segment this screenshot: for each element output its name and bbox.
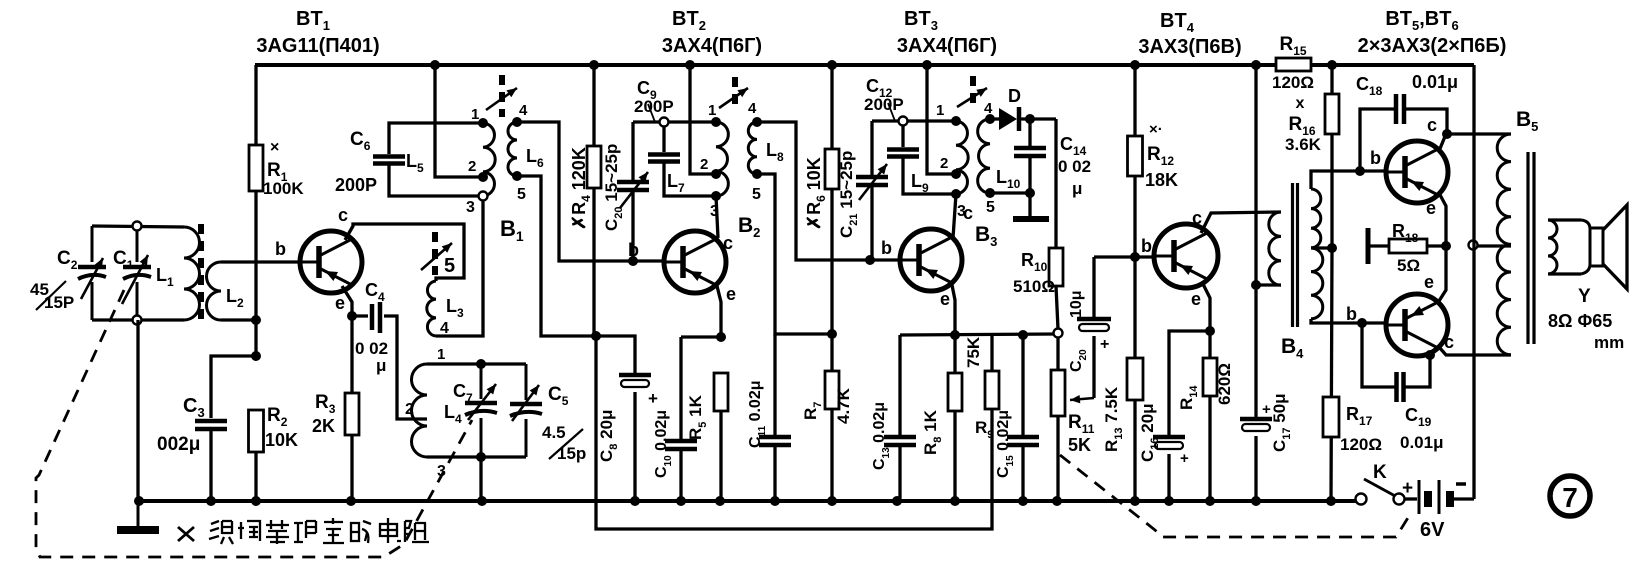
svg-text:0 02: 0 02 [1058, 157, 1091, 176]
inductor B4 secondary [1311, 189, 1323, 319]
transistor BT3 [900, 229, 962, 291]
inductor L4 [405, 364, 462, 480]
svg-text:2K: 2K [312, 416, 335, 436]
svg-text:b: b [1141, 236, 1152, 256]
trimmer C20 15-25p [602, 122, 649, 266]
resistor R10 510 [1013, 119, 1063, 329]
switch K [1356, 462, 1405, 505]
dashed gang link tuning [36, 290, 472, 557]
svg-text:K: K [1373, 462, 1387, 483]
inductor B5 primary [1497, 134, 1511, 355]
wire switch to battery [1402, 478, 1417, 499]
capacitor C6 200P [335, 123, 483, 196]
wire L2 bottom to bias node [221, 315, 261, 325]
label B3 [975, 223, 997, 249]
capacitor C12 200P [864, 76, 956, 194]
svg-text:3AX4(П6Г): 3AX4(П6Г) [897, 35, 997, 57]
svg-text:10K: 10K [265, 430, 298, 450]
label B5 [1516, 108, 1538, 134]
svg-text:3AG11(П401): 3AG11(П401) [256, 35, 379, 57]
capacitor C20b 10u electrolytic [1068, 257, 1111, 398]
inductor L6 B1 secondary [508, 102, 544, 203]
svg-text:×·: ×· [1149, 121, 1163, 138]
svg-text:e: e [1191, 289, 1201, 309]
wire BT1 emitter [342, 286, 357, 321]
svg-text:e: e [940, 289, 950, 309]
inductor L1 [156, 227, 200, 320]
transistor BT2 [664, 231, 726, 293]
svg-text:510Ω: 510Ω [1013, 277, 1055, 296]
potentiometer R11 5K [1051, 337, 1095, 506]
label speaker value [1548, 311, 1624, 352]
dashed link volume switch [1060, 455, 1411, 537]
note cross mark [178, 527, 194, 541]
svg-text:1: 1 [471, 106, 479, 123]
capacitor C4 0.02u [352, 280, 427, 419]
capacitor C2 trimmer [57, 226, 106, 320]
svg-text:120Ω: 120Ω [1272, 73, 1314, 92]
resistor R12 18K [1128, 60, 1179, 257]
label BT3 title [897, 8, 997, 57]
wire bottom ground rail [139, 499, 1356, 503]
svg-text:4: 4 [748, 100, 757, 117]
resistor R17 120 [1323, 248, 1382, 506]
wire L6 pin5 to R4 node [517, 176, 596, 336]
wire osc tank bottom [427, 452, 526, 506]
label BT5 b [1370, 148, 1381, 168]
resistor R15 120 [1272, 34, 1314, 92]
svg-text:e: e [1426, 198, 1436, 218]
svg-text:Y: Y [1578, 286, 1591, 307]
capacitor C1 main tuning [113, 222, 151, 325]
label BT6 b [1346, 304, 1357, 324]
wire BT4 collector to B4 [1201, 212, 1281, 233]
capacitor C16 20u electrolytic [1138, 331, 1210, 506]
svg-text:8Ω Φ65: 8Ω Φ65 [1548, 311, 1612, 331]
inductor L3 [427, 281, 464, 337]
capacitor C11 0.02u [747, 334, 791, 506]
B2 tuning core [719, 77, 748, 108]
label BT4 b [1141, 236, 1152, 256]
label L5 [406, 151, 424, 175]
label BT5 BT6 title [1358, 8, 1507, 57]
svg-text:7: 7 [1562, 482, 1578, 513]
svg-text:+: + [1402, 478, 1413, 499]
svg-text:2: 2 [940, 155, 948, 172]
svg-text:4.5: 4.5 [542, 423, 566, 442]
wire rail to B2 tap [685, 60, 721, 179]
svg-text:3AX4(П6Г): 3AX4(П6Г) [662, 35, 762, 57]
battery 6V [1419, 480, 1466, 541]
svg-text:120Ω: 120Ω [1340, 435, 1382, 454]
resistor R5 1K [686, 373, 728, 506]
svg-text:e: e [726, 284, 736, 304]
label B2 [738, 214, 760, 240]
svg-text:100K: 100K [263, 179, 304, 198]
label BT3 c [963, 203, 973, 223]
wire antenna tank top [92, 226, 184, 227]
wire BT2 emitter [716, 286, 726, 342]
label BT5 c [1427, 115, 1437, 135]
svg-text:c: c [1192, 208, 1202, 228]
wire R4 node to C8 [596, 336, 635, 374]
wire B4 sec top to BT5 base [1311, 166, 1386, 189]
svg-text:5: 5 [517, 186, 526, 203]
wire B4 sec bottom to BT6 base [1311, 318, 1386, 328]
svg-text:b: b [1346, 304, 1357, 324]
wire supply to B4 and C17 [1251, 60, 1261, 418]
inductor B4 primary [1256, 212, 1281, 285]
svg-text:5Ω: 5Ω [1397, 256, 1420, 275]
resistor R14 620 [1177, 331, 1234, 506]
wire AGC loop to R9 [596, 336, 992, 529]
svg-text:b: b [628, 240, 639, 260]
capacitor C7 variable [453, 364, 497, 457]
svg-text:3.6K: 3.6K [1285, 135, 1322, 154]
wire emitter bus to volume pot [900, 329, 1063, 341]
inductor L8 B2 secondary [748, 100, 784, 203]
label BT4 c [1192, 208, 1202, 228]
transistor BT6 [1386, 294, 1448, 356]
wire L2 top to BT1 base [221, 239, 300, 262]
resistor R3 2K [312, 316, 359, 506]
capacitor C14 0.02u [1014, 119, 1091, 216]
svg-text:x: x [1296, 95, 1305, 112]
label BT2 title [662, 8, 762, 57]
svg-text:D: D [1008, 86, 1021, 106]
wire BT5 collector to B5 [1439, 134, 1511, 151]
svg-text:200P: 200P [634, 97, 674, 116]
wire L8 pin5 to divider [757, 174, 837, 339]
label BT6 e [1424, 272, 1434, 292]
label BT2 e [726, 284, 736, 304]
svg-text:4.7K: 4.7K [834, 387, 853, 424]
ferrite rod core dashed [198, 224, 204, 322]
resistor R4 120K [569, 60, 601, 336]
wire B5 center tap [1469, 241, 1512, 250]
wire rail to B3 tap [922, 60, 961, 179]
svg-text:15P: 15P [44, 293, 74, 312]
wire B4 tap to R16 [1311, 243, 1337, 253]
svg-text:18K: 18K [1145, 170, 1178, 190]
svg-text:BT5,BT6: BT5,BT6 [1385, 8, 1458, 33]
capacitor C15 0.02u [995, 335, 1039, 506]
wire BT6 collector to B5 [1425, 347, 1511, 360]
wire rail to B1 tap [430, 60, 488, 182]
svg-text:200P: 200P [864, 95, 904, 114]
resistor R13 7.5K [1102, 257, 1143, 506]
capacitor C9 200P [634, 78, 716, 196]
svg-text:c: c [1444, 332, 1454, 352]
wire bias node to C3 R2 [251, 320, 261, 361]
label speaker Y [1578, 286, 1591, 307]
B4 core [1293, 183, 1298, 327]
resistor R6 10K [804, 60, 839, 334]
svg-text:+: + [1180, 450, 1189, 467]
resistor R8 1K [921, 335, 962, 506]
svg-text:15p: 15p [557, 444, 586, 463]
capacitor C17 50u electrolytic [1240, 393, 1293, 506]
detector ground bar [1013, 216, 1049, 222]
svg-text:2: 2 [405, 401, 414, 418]
capacitor C19 0.01u [1362, 323, 1444, 452]
label BT3 b [881, 238, 892, 258]
trimmer C21 15-25p [837, 121, 888, 265]
svg-text:+: + [1100, 336, 1109, 353]
label C5 value 4.5/15p [542, 423, 586, 463]
svg-text:620Ω: 620Ω [1215, 363, 1234, 405]
resistor R16 3.6K [1285, 60, 1339, 248]
svg-text:1: 1 [708, 102, 716, 119]
label BT1 e [335, 293, 345, 313]
inductor L7 B2 primary [667, 102, 728, 220]
svg-text:b: b [881, 238, 892, 258]
wire top supply rail [255, 63, 1474, 67]
wire BT4 base [1094, 252, 1155, 262]
B5 core [1528, 152, 1534, 344]
svg-text:2: 2 [468, 158, 476, 175]
capacitor C13 0.02u [871, 335, 916, 506]
wire tank bottom to ground [134, 320, 144, 506]
svg-text:3AX3(П6В): 3AX3(П6В) [1138, 36, 1241, 58]
svg-text:4: 4 [984, 100, 993, 117]
transistor BT1 [300, 231, 362, 293]
svg-text:5: 5 [444, 255, 455, 277]
svg-text:μ: μ [1072, 179, 1082, 198]
wire B3 tank top [872, 117, 956, 126]
svg-text:μ: μ [376, 356, 386, 375]
label BT2 c [723, 233, 733, 253]
svg-text:2×3AX3(2×П6Б): 2×3AX3(2×П6Б) [1358, 35, 1507, 57]
B1 tuning core [486, 75, 517, 117]
svg-text:×: × [270, 139, 279, 156]
svg-text:c: c [1427, 115, 1437, 135]
label B1 [500, 216, 524, 244]
svg-text:c: c [723, 233, 733, 253]
inductor B5 secondary [1548, 220, 1557, 274]
svg-text:0.01μ: 0.01μ [1412, 72, 1458, 92]
label BT3 e [940, 289, 950, 309]
label BT1 c [338, 205, 348, 225]
svg-text:0.01μ: 0.01μ [1400, 433, 1444, 452]
figure number 7 [1550, 476, 1590, 516]
transistor BT5 [1386, 141, 1448, 203]
svg-text:5K: 5K [1068, 435, 1091, 455]
inductor L2 [207, 262, 245, 320]
label B4 [1281, 335, 1304, 361]
svg-text:c: c [963, 203, 973, 223]
svg-text:5: 5 [752, 186, 761, 203]
diode D [990, 86, 1056, 131]
wire battery to feed [1452, 497, 1474, 500]
svg-text:+: + [648, 389, 658, 408]
svg-text:1: 1 [936, 102, 944, 119]
resistor R2 10K [249, 405, 299, 506]
speaker [1548, 205, 1627, 289]
capacitor C10 0.02u [653, 337, 721, 506]
transistor BT4 [1154, 224, 1218, 288]
note text Chinese [209, 518, 429, 544]
svg-text:e: e [1424, 272, 1434, 292]
inductor L9 B3 primary [911, 102, 968, 220]
svg-text:4: 4 [519, 102, 528, 119]
wire L6 pin4 to BT2 base [517, 122, 664, 261]
wire L10 pin5 to detector ground [990, 191, 1030, 194]
svg-text:5: 5 [986, 199, 995, 216]
wire BT3 collector to L9 pin3 [953, 194, 956, 238]
wire BT2 collector to L7 pin3 [716, 196, 718, 238]
svg-text:b: b [275, 239, 286, 259]
label BT4 title [1138, 10, 1241, 58]
inductor L10 B3 secondary [978, 100, 1021, 216]
svg-text:e: e [335, 293, 345, 313]
wire L3 bottom to L5 pin3 [436, 200, 483, 336]
wire battery feed vertical [1472, 65, 1475, 499]
label C2 value 45/15p [30, 280, 74, 312]
svg-text:6V: 6V [1420, 519, 1445, 541]
svg-text:2: 2 [700, 156, 708, 173]
resistor R7 4.7K [801, 334, 853, 506]
svg-text:3: 3 [466, 199, 475, 216]
label BT6 c [1444, 332, 1454, 352]
capacitor C18 0.01u [1356, 72, 1458, 171]
svg-text:10μ: 10μ [1068, 290, 1085, 318]
capacitor C3 0.02u [157, 356, 256, 506]
wire BT1 collector to osc coil [345, 224, 464, 281]
wire BT4 emitter [1203, 284, 1215, 336]
node R4 bottom junction [591, 331, 601, 341]
wire osc tank top [427, 346, 526, 369]
label BT1 title [256, 8, 379, 57]
svg-text:75K: 75K [964, 336, 983, 368]
label BT4 e [1191, 289, 1201, 309]
oscillator trimmer core [421, 232, 455, 277]
wire L8 pin4 to BT3 base [757, 122, 900, 260]
label BT2 b [628, 240, 639, 260]
resistor R18 5 ohm [1368, 221, 1446, 275]
svg-text:200P: 200P [335, 175, 377, 195]
label BT5 e [1426, 198, 1436, 218]
svg-text:002μ: 002μ [157, 434, 200, 455]
svg-text:1: 1 [437, 346, 445, 363]
wire BT3 emitter [950, 285, 960, 340]
capacitor C5 variable [510, 364, 569, 457]
resistor R9 75K [964, 335, 999, 441]
svg-text:b: b [1370, 148, 1381, 168]
svg-text:mm: mm [1594, 333, 1624, 352]
wire B2 tank top [633, 118, 716, 127]
resistor R1 100K [249, 65, 304, 320]
wire antenna tank bottom [92, 318, 184, 321]
B3 tuning core [957, 76, 987, 107]
inductor L5 B1 primary [466, 106, 495, 216]
ground symbol [117, 501, 159, 530]
svg-text:c: c [338, 205, 348, 225]
capacitor C8 20u electrolytic [597, 375, 658, 506]
wire BT5 emitter bus [1439, 193, 1451, 301]
